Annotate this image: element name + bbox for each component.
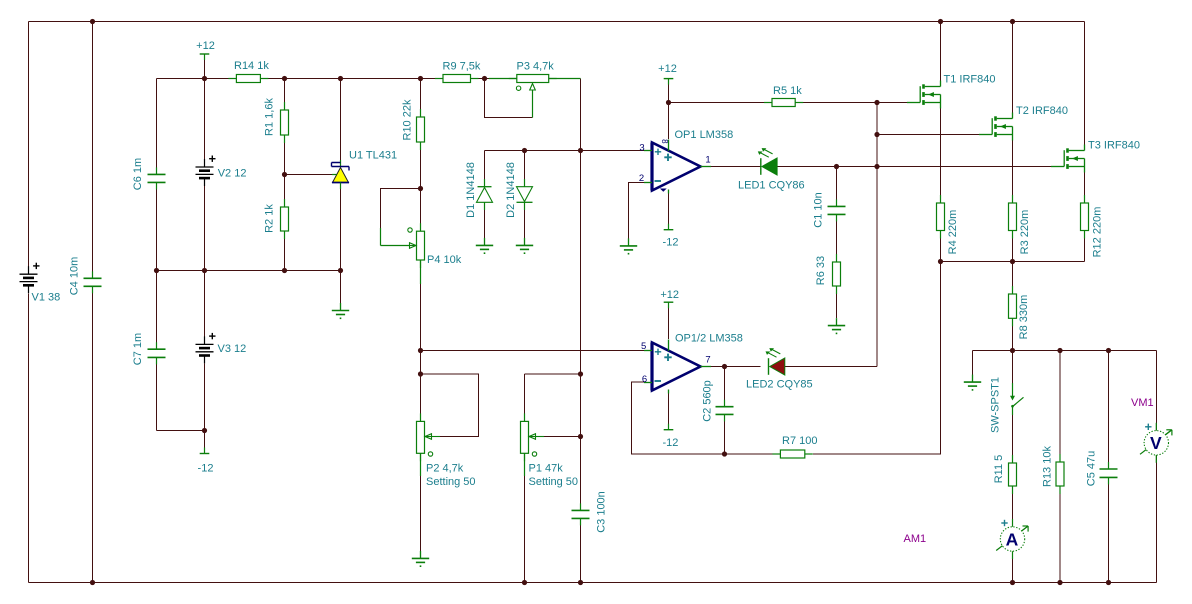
wire P3 right drop: [580, 79, 582, 151]
potentiometer P1 47k: [521, 413, 579, 488]
capacitor C5 47u: [1086, 451, 1118, 486]
power -12 jumper OP2: [662, 424, 678, 449]
svg-text:AM1: AM1: [904, 533, 927, 545]
wire SW-R11: [1012, 408, 1014, 463]
junction R1/R2/U1: [282, 172, 287, 177]
svg-text:3: 3: [639, 142, 644, 153]
wire U1 anode: [340, 185, 342, 271]
potentiometer P2 4,7k: [417, 413, 476, 488]
svg-text:A: A: [1006, 529, 1019, 549]
wire R10 top: [420, 79, 422, 118]
junction load rail R13: [1057, 348, 1062, 353]
wire C2 top lead: [724, 367, 726, 407]
LED LED2 CQY85: [746, 348, 813, 390]
wire top rail: [29, 21, 1085, 23]
svg-text:T2 IRF840: T2 IRF840: [1016, 105, 1068, 117]
wire mid rail: [157, 270, 341, 272]
wire D1 bottom: [484, 203, 486, 239]
shunt regulator U1 TL431: [332, 150, 398, 190]
wire -12 stem: [204, 431, 206, 453]
pin 7 OP2: [705, 355, 710, 366]
junction 580 pin3 row: [578, 148, 583, 153]
junction pin5 row: [418, 348, 423, 353]
resistor R5 1k: [764, 85, 803, 107]
wire OP2 out row: [711, 366, 761, 368]
wire C6 top drop: [156, 79, 158, 175]
junction mid rail U1: [338, 268, 343, 273]
ground R6: [828, 318, 845, 334]
ground P2: [412, 551, 429, 567]
wire V2 stem: [204, 56, 206, 79]
wire OP2 pin6 loop: [632, 382, 773, 454]
junction R13 bottom: [1057, 580, 1062, 585]
wire T2 source-R3: [1012, 133, 1014, 204]
capacitor C4: [69, 257, 102, 296]
svg-text:R5 1k: R5 1k: [773, 85, 802, 97]
wire load rail: [973, 350, 1157, 352]
resistor R10 22k: [402, 99, 425, 150]
svg-text:C6 1m: C6 1m: [132, 158, 144, 190]
capacitor C7: [132, 333, 166, 365]
svg-text:V2 12: V2 12: [218, 168, 247, 180]
power -12 jumper OP1: [663, 224, 679, 249]
wire C4 column bottom: [92, 287, 94, 583]
junction mid rail C6: [154, 268, 159, 273]
wire T2 gate row: [877, 134, 981, 136]
ground D2: [516, 238, 533, 254]
diode D2 1N4148: [505, 162, 533, 218]
svg-text:R8 330m: R8 330m: [1018, 295, 1030, 340]
wire sense rail: [941, 261, 1085, 263]
svg-text:-12: -12: [198, 463, 214, 475]
power -12 jumper main: [198, 448, 214, 475]
svg-text:P4 10k: P4 10k: [427, 254, 462, 266]
svg-text:R4 220m: R4 220m: [947, 210, 959, 255]
wire +12 rail: [157, 78, 581, 80]
svg-text:R11 5: R11 5: [993, 455, 1005, 484]
label VM1: [1131, 397, 1154, 409]
resistor R3 220m: [1009, 195, 1032, 254]
junction P2 top/wiper: [418, 371, 423, 376]
diode D1 1N4148: [465, 162, 493, 218]
wire T3 source-R12: [1084, 165, 1086, 204]
svg-text:Setting 50: Setting 50: [426, 476, 476, 488]
junction C2 feedback: [722, 451, 727, 456]
resistor R2 1k: [264, 199, 289, 239]
svg-text:7: 7: [705, 355, 710, 366]
transistor T1 IRF840: [907, 74, 995, 109]
wire R5 rail: [669, 102, 909, 104]
svg-text:Setting 50: Setting 50: [529, 476, 579, 488]
junction C5 bottom: [1106, 580, 1111, 585]
svg-text:6: 6: [642, 374, 647, 385]
svg-text:R14 1k: R14 1k: [234, 60, 269, 72]
wire OP1 v- stem: [668, 194, 670, 230]
wire 580 column mid: [580, 151, 582, 511]
capacitor C3 100n: [572, 491, 608, 533]
wire T3 drain: [1084, 22, 1086, 151]
wire R11-AM1: [1012, 486, 1014, 528]
wire R4 bottom: [940, 231, 942, 262]
wire P4 bottom: [420, 260, 422, 351]
junction P1 top 580: [578, 371, 583, 376]
svg-text:R13 10k: R13 10k: [1042, 446, 1054, 487]
junction 877 T2 gate row: [874, 132, 879, 137]
svg-text:1: 1: [705, 155, 710, 166]
svg-text:R10 22k: R10 22k: [402, 99, 414, 140]
label AM1: [904, 533, 927, 545]
op-amp OP1 LM358: [644, 129, 733, 194]
capacitor C1 10n: [813, 192, 846, 227]
wire C2 bottom lead: [724, 415, 726, 455]
wire V2 top: [204, 79, 206, 167]
wire P2 wiper loop: [421, 374, 479, 437]
svg-text:R9 7,5k: R9 7,5k: [443, 61, 481, 73]
svg-text:C7 1m: C7 1m: [132, 333, 144, 365]
capacitor C2 560p: [702, 380, 734, 422]
resistor R1 1,6k: [264, 98, 289, 143]
svg-text:C2 560p: C2 560p: [702, 380, 714, 422]
wire -12 rail: [157, 430, 205, 432]
wire C7 bottom: [156, 358, 158, 431]
wire C5 bottom: [1108, 478, 1110, 583]
svg-text:P3 4,7k: P3 4,7k: [517, 61, 555, 73]
junction mid rail R2: [282, 268, 287, 273]
wire VM1 bottom: [1156, 455, 1158, 583]
svg-text:P2 4,7k: P2 4,7k: [426, 463, 464, 475]
wire OP1 pin2 loop: [629, 183, 647, 239]
junction T2 drain top: [1010, 19, 1015, 24]
junction R10/P4 wiper: [418, 186, 423, 191]
wire C1 top lead: [836, 167, 838, 207]
wire U1 gnd stem: [340, 271, 342, 305]
pin 5 OP2: [641, 341, 646, 352]
op-amp OP1/2 LM358: [644, 333, 743, 394]
junction R1 top: [282, 76, 287, 81]
LED LED1 CQY86: [738, 148, 805, 191]
svg-text:5: 5: [641, 341, 646, 352]
ground U1: [332, 303, 349, 319]
wire left border bottom: [28, 294, 30, 583]
junction LED row x877: [874, 164, 879, 169]
wire 877 column: [876, 103, 878, 367]
wire D2 top: [524, 151, 526, 187]
svg-text:P1 47k: P1 47k: [529, 463, 564, 475]
junction C4 bottom: [90, 580, 95, 585]
resistor R6 33: [815, 254, 841, 294]
junction +12/V2: [202, 76, 207, 81]
svg-text:V3 12: V3 12: [218, 343, 247, 355]
wire C4 column top: [92, 22, 94, 279]
junction AM1 bottom: [1010, 580, 1015, 585]
svg-text:T3 IRF840: T3 IRF840: [1088, 140, 1140, 152]
svg-text:LED2 CQY85: LED2 CQY85: [746, 379, 813, 391]
junction 877 R5 rail: [874, 100, 879, 105]
wire R13 top: [1059, 351, 1061, 463]
resistor R14 1k: [228, 60, 269, 83]
junction C1 top: [834, 164, 839, 169]
wire VM1 top: [1156, 351, 1158, 432]
potentiometer P3 4,7k: [489, 61, 581, 118]
wire AM1 bottom: [1012, 551, 1014, 583]
junction sense rail R4: [938, 259, 943, 264]
junction load rail C5: [1106, 348, 1111, 353]
svg-text:C5 47u: C5 47u: [1086, 451, 1098, 486]
wire U1 ref: [285, 174, 333, 176]
wire D2 bottom: [524, 203, 526, 239]
resistor R9 7,5k: [435, 61, 481, 83]
resistor R7 100: [772, 435, 817, 458]
wire C3 bottom: [580, 519, 582, 583]
wire P4-P2 column: [420, 351, 422, 422]
pin 3 OP1: [639, 142, 644, 153]
battery V1: [20, 263, 61, 304]
svg-text:-12: -12: [662, 437, 678, 449]
svg-text:+12: +12: [658, 63, 677, 75]
svg-text:R7 100: R7 100: [782, 435, 817, 447]
pin 1 OP1: [705, 155, 710, 166]
wire OP1 out row: [711, 166, 761, 168]
wire R12 bottom: [1084, 231, 1086, 262]
junction OP1 v+ / R5 rail: [666, 100, 671, 105]
potentiometer P4 10k: [381, 223, 462, 284]
transistor T3 IRF840: [1051, 140, 1140, 173]
svg-text:R2 1k: R2 1k: [264, 204, 276, 233]
svg-text:+12: +12: [660, 289, 679, 301]
resistor R13 10k: [1042, 446, 1065, 494]
svg-text:T1 IRF840: T1 IRF840: [944, 74, 996, 86]
wire P1 top row: [525, 373, 581, 375]
junction R10 top: [418, 76, 423, 81]
wire R1-R2: [284, 135, 286, 207]
power +12 jumper OP1: [658, 63, 677, 85]
svg-text:V: V: [1150, 433, 1162, 453]
wire OP2 v- stem: [668, 394, 670, 430]
svg-text:D2 1N4148: D2 1N4148: [505, 162, 517, 218]
svg-text:2: 2: [639, 173, 644, 184]
svg-text:OP1 LM358: OP1 LM358: [675, 129, 734, 141]
wire pin3 row: [485, 150, 647, 152]
wire R3 bottom: [1012, 231, 1014, 262]
pin 2 OP1: [639, 173, 644, 184]
svg-text:R3 220m: R3 220m: [1019, 210, 1031, 255]
wire V2 bottom: [204, 186, 206, 271]
svg-text:D1 1N4148: D1 1N4148: [465, 162, 477, 218]
svg-text:U1 TL431: U1 TL431: [349, 150, 397, 162]
voltmeter VM1: [1140, 423, 1172, 463]
junction P1 bottom: [522, 580, 527, 585]
resistor R4 220m: [937, 195, 960, 254]
power +12 jumper main: [196, 40, 215, 60]
wire P1 bottom: [524, 454, 526, 583]
power +12 jumper OP2: [660, 289, 679, 308]
svg-text:V1 38: V1 38: [32, 292, 61, 304]
wire C7 top: [156, 271, 158, 350]
wire pin5 row: [421, 350, 647, 352]
resistor R8 330m: [1009, 286, 1031, 339]
wire V3 bottom: [204, 364, 206, 431]
junction C2 top: [722, 364, 727, 369]
wire R8 top lead: [1012, 262, 1014, 295]
wire bottom rail: [29, 582, 1157, 584]
wire R2 bottom: [284, 231, 286, 271]
svg-text:R12 220m: R12 220m: [1092, 207, 1104, 258]
junction load rail SW: [1010, 348, 1015, 353]
junction P1 wiper 580: [578, 434, 583, 439]
wire P1 column top: [524, 374, 526, 422]
wire T1 source-R4: [940, 101, 942, 204]
wire R10-P4: [420, 142, 422, 231]
wire U1 cathode: [340, 79, 342, 161]
svg-text:C4 10m: C4 10m: [69, 257, 81, 296]
svg-text:C3 100n: C3 100n: [596, 491, 608, 533]
wire R1 top: [284, 79, 286, 111]
svg-text:SW-SPST1: SW-SPST1: [990, 377, 1002, 433]
svg-text:-12: -12: [663, 237, 679, 249]
pin 6 OP2: [642, 374, 647, 385]
svg-text:C1 10n: C1 10n: [813, 192, 825, 227]
svg-text:+12: +12: [196, 40, 215, 52]
switch SW-SPST1: [990, 377, 1024, 433]
wire C5 top: [1108, 351, 1110, 470]
transistor T2 IRF840: [979, 105, 1068, 141]
ground D1: [476, 238, 493, 254]
ground SW: [964, 375, 981, 391]
junction mid rail V2: [202, 268, 207, 273]
svg-text:R6 33: R6 33: [815, 256, 827, 285]
svg-text:VM1: VM1: [1131, 397, 1154, 409]
capacitor C6: [132, 158, 166, 190]
wire R13 bottom: [1059, 486, 1061, 583]
wire D1 top: [484, 151, 486, 187]
wire P4 wiper loop: [381, 189, 421, 229]
junction D2 pin3 row: [522, 148, 527, 153]
wire C6 bottom drop: [156, 183, 158, 271]
junction C4 top: [90, 19, 95, 24]
wire R7 right riser: [813, 262, 941, 455]
svg-text:R1 1,6k: R1 1,6k: [264, 98, 276, 136]
junction C3 bottom: [578, 580, 583, 585]
wire P1 wiper row: [540, 436, 581, 438]
wire OP1 v+ stem: [668, 79, 670, 140]
wire P2 bottom: [420, 454, 422, 552]
svg-text:LED1 CQY86: LED1 CQY86: [738, 180, 805, 192]
wire SW top: [1012, 351, 1014, 384]
wire T1 drain: [940, 22, 942, 87]
battery V3: [196, 333, 247, 364]
battery V2: [196, 156, 247, 187]
junction U1 top: [338, 76, 343, 81]
wire LED2 cathode row: [785, 366, 877, 368]
ground OP1 pin2: [620, 238, 637, 254]
resistor R11 5: [993, 455, 1017, 494]
wire left border top (V1 drain): [28, 22, 30, 267]
wire LED1-T3 row: [778, 166, 1055, 168]
wire OP2 v+ stem: [668, 303, 670, 340]
wire gnd drop 972: [972, 351, 974, 376]
junction sense rail R3: [1010, 259, 1015, 264]
wire V3 top: [204, 271, 206, 345]
wire C1-R6: [836, 215, 838, 263]
junction T1 drain top: [938, 19, 943, 24]
junction R9/P3: [482, 76, 487, 81]
wire R6 gnd stem: [836, 286, 838, 318]
wire T2 drain: [1012, 22, 1014, 119]
wire P3 wiper elbow: [485, 79, 533, 118]
ammeter AM1: [996, 519, 1028, 559]
resistor R12 220m: [1081, 195, 1104, 257]
svg-text:8: 8: [660, 139, 669, 144]
wire R8 bottom lead: [1012, 319, 1014, 351]
svg-text:OP1/2 LM358: OP1/2 LM358: [675, 333, 743, 345]
junction V3/-12: [202, 428, 207, 433]
